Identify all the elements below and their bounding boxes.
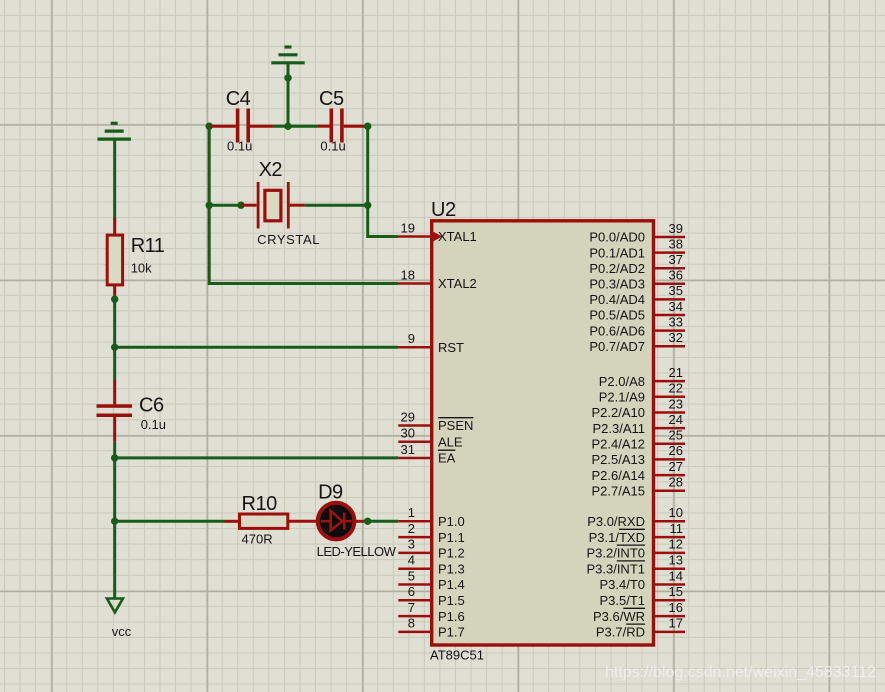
svg-text:24: 24: [669, 412, 683, 427]
svg-text:P3.4/T0: P3.4/T0: [599, 577, 645, 592]
LED D9: [318, 503, 355, 540]
junction below R11: [111, 296, 118, 303]
svg-text:vcc: vcc: [112, 624, 132, 639]
svg-text:37: 37: [669, 252, 683, 267]
wire R11 top lead: [113, 218, 116, 235]
pin 22 (P2.1/A9) right stub: [599, 381, 685, 405]
svg-text:P3.7/RD: P3.7/RD: [596, 625, 645, 640]
svg-text:P3.3/INT1: P3.3/INT1: [586, 561, 645, 576]
svg-text:P0.4/AD4: P0.4/AD4: [589, 292, 645, 307]
svg-text:26: 26: [669, 443, 683, 458]
svg-text:P2.7/A15: P2.7/A15: [592, 483, 646, 498]
pin 15 (P3.5/T1) right stub: [599, 584, 685, 608]
svg-text:5: 5: [408, 568, 415, 583]
junction crystal left lead: [237, 202, 244, 209]
svg-text:P3.0/RXD: P3.0/RXD: [587, 514, 645, 529]
svg-text:LED-YELLOW: LED-YELLOW: [317, 544, 397, 559]
junction left rail / crystal row: [206, 202, 213, 209]
pin 38 (P0.1/AD1) right stub: [589, 236, 685, 260]
svg-text:8: 8: [408, 616, 415, 631]
svg-text:R10: R10: [242, 493, 278, 515]
svg-text:U2: U2: [431, 199, 456, 221]
pin 2 (P1.1) left stub: [398, 521, 464, 545]
pin 18 (XTAL2) left stub: [398, 267, 476, 291]
pin 32 (P0.7/AD7) right stub: [589, 330, 685, 354]
wire X2 right lead: [290, 204, 305, 207]
svg-text:30: 30: [401, 426, 415, 441]
svg-text:10: 10: [669, 505, 683, 520]
junction after D9: [364, 518, 371, 525]
svg-text:29: 29: [401, 409, 415, 424]
wire to RST pin: [115, 346, 399, 349]
svg-text:13: 13: [669, 553, 683, 568]
svg-text:0.1u: 0.1u: [227, 138, 252, 153]
wire cap row centre: [273, 125, 318, 128]
pin 21 (P2.0/A8) right stub: [599, 365, 685, 389]
svg-text:33: 33: [669, 314, 683, 329]
svg-text:12: 12: [669, 537, 683, 552]
svg-text:21: 21: [669, 365, 683, 380]
wire rail to crystal: [209, 204, 241, 207]
svg-text:P0.7/AD7: P0.7/AD7: [589, 339, 645, 354]
junction ground / cap row: [284, 123, 291, 130]
wire X2 left lead: [241, 204, 257, 207]
pin 33 (P0.6/AD6) right stub: [589, 314, 685, 338]
junction on ground stem: [284, 74, 291, 81]
junction right rail / crystal row: [364, 202, 371, 209]
pin 5 (P1.4) left stub: [398, 568, 464, 592]
wire C6 top lead: [113, 380, 116, 404]
svg-text:P2.4/A12: P2.4/A12: [592, 437, 646, 452]
pin 19 (XTAL1) left stub: [398, 220, 476, 244]
svg-text:0.1u: 0.1u: [141, 417, 166, 432]
svg-text:34: 34: [669, 299, 683, 314]
svg-text:15: 15: [669, 584, 683, 599]
svg-text:P0.0/AD0: P0.0/AD0: [589, 230, 645, 245]
pin 29 (PSEN) left stub: [398, 409, 473, 433]
svg-text:P0.1/AD1: P0.1/AD1: [589, 245, 645, 260]
wire C6 to vcc arrow: [113, 442, 116, 599]
svg-text:C6: C6: [139, 394, 164, 416]
svg-text:P0.6/AD6: P0.6/AD6: [589, 323, 645, 338]
svg-text:P0.5/AD5: P0.5/AD5: [589, 308, 645, 323]
svg-text:P1.4: P1.4: [438, 577, 465, 592]
pin 26 (P2.5/A13) right stub: [592, 443, 686, 467]
svg-text:P3.5/T1: P3.5/T1: [599, 593, 645, 608]
svg-text:3: 3: [408, 537, 415, 552]
svg-text:0.1u: 0.1u: [320, 138, 345, 153]
junction RST tap: [111, 344, 118, 351]
pin 7 (P1.6) left stub: [398, 600, 464, 624]
node right end of cap row: [364, 123, 371, 130]
wire R11 bottom lead: [113, 285, 116, 299]
svg-text:27: 27: [669, 459, 683, 474]
wire to EA pin: [115, 456, 399, 459]
svg-text:7: 7: [408, 600, 415, 615]
svg-text:P0.2/AD2: P0.2/AD2: [589, 261, 645, 276]
svg-text:XTAL1: XTAL1: [438, 229, 477, 244]
wire C5 left lead: [318, 125, 330, 128]
svg-text:39: 39: [669, 221, 683, 236]
pin 10 (P3.0/RXD) right stub: [587, 505, 685, 529]
svg-text:AT89C51: AT89C51: [430, 648, 484, 663]
svg-text:32: 32: [669, 330, 683, 345]
pin 16 (P3.6/WR) right stub: [593, 600, 685, 624]
svg-text:D9: D9: [318, 482, 343, 504]
svg-text:P1.7: P1.7: [438, 625, 465, 640]
svg-text:23: 23: [669, 396, 683, 411]
svg-text:P3.6/WR: P3.6/WR: [593, 609, 645, 624]
svg-text:10k: 10k: [131, 260, 152, 275]
wire ground to R11: [113, 139, 116, 220]
wire C4 left lead: [209, 125, 236, 128]
pin 30 (ALE) left stub: [398, 426, 463, 450]
svg-text:18: 18: [401, 267, 415, 282]
svg-text:P1.6: P1.6: [438, 609, 465, 624]
power terminal vcc (arrow): [107, 599, 123, 613]
ground (left, R11 rail): [98, 123, 131, 139]
svg-text:17: 17: [669, 616, 683, 631]
svg-text:9: 9: [408, 331, 415, 346]
svg-text:P1.3: P1.3: [438, 561, 465, 576]
svg-text:19: 19: [401, 220, 415, 235]
wire left rail to XTAL2 pin: [209, 282, 398, 285]
svg-text:https://blog.csdn.net/weixin_4: https://blog.csdn.net/weixin_45833112: [605, 664, 876, 681]
pin 13 (P3.3/INT1) right stub: [586, 553, 685, 577]
wire C6 bottom lead: [113, 417, 116, 442]
svg-text:C5: C5: [319, 88, 344, 110]
pin 17 (P3.7/RD) right stub: [596, 616, 685, 640]
wire rail to R10: [115, 520, 225, 523]
pin 11 (P3.1/TXD) right stub: [589, 521, 685, 545]
ground (top, crystal circuit): [271, 47, 304, 63]
svg-text:PSEN: PSEN: [438, 418, 473, 433]
pin 9 (RST) left stub: [398, 331, 464, 355]
svg-text:P2.2/A10: P2.2/A10: [592, 405, 646, 420]
wire right rail C5 to XTAL1: [366, 126, 369, 238]
junction P1.0 tap: [111, 518, 118, 525]
pin 6 (P1.5) left stub: [398, 584, 464, 608]
wire R11 to C6: [113, 299, 116, 380]
svg-text:P0.3/AD3: P0.3/AD3: [589, 277, 645, 292]
resistor R11: [107, 235, 122, 285]
pin 31 (EA) left stub: [398, 442, 455, 466]
svg-text:11: 11: [670, 521, 684, 536]
svg-text:4: 4: [408, 553, 415, 568]
svg-text:RST: RST: [438, 340, 464, 355]
wire left rail C4 to XTAL2: [208, 126, 211, 285]
svg-text:P2.5/A13: P2.5/A13: [592, 452, 646, 467]
svg-text:R11: R11: [131, 235, 165, 257]
pin 12 (P3.2/INT0) right stub: [586, 537, 685, 561]
svg-text:22: 22: [669, 381, 683, 396]
pin 8 (P1.7) left stub: [398, 616, 464, 640]
pin 39 (P0.0/AD0) right stub: [589, 221, 685, 245]
wire R10 to D9: [288, 520, 316, 523]
svg-text:XTAL2: XTAL2: [438, 276, 477, 291]
svg-text:16: 16: [669, 600, 683, 615]
resistor R10: [240, 514, 288, 528]
svg-text:31: 31: [401, 442, 415, 457]
capacitor C5: [330, 109, 344, 143]
wire C4 right lead: [250, 125, 273, 128]
pin 28 (P2.7/A15) right stub: [592, 475, 686, 499]
pin 1 (P1.0) left stub: [398, 505, 464, 529]
node left end of cap row: [206, 123, 213, 130]
svg-text:470R: 470R: [242, 531, 273, 546]
pin 25 (P2.4/A12) right stub: [592, 428, 686, 452]
pin 23 (P2.2/A10) right stub: [592, 396, 686, 420]
svg-text:P1.2: P1.2: [438, 546, 465, 561]
wire D9 right lead: [353, 520, 364, 523]
crystal X2: [257, 182, 290, 229]
svg-text:25: 25: [669, 428, 683, 443]
wire R10 left lead: [225, 520, 240, 523]
svg-text:C4: C4: [226, 88, 251, 110]
pin 36 (P0.3/AD3) right stub: [589, 268, 685, 292]
svg-text:2: 2: [408, 521, 415, 536]
pin 34 (P0.5/AD5) right stub: [589, 299, 685, 323]
svg-text:38: 38: [669, 236, 683, 251]
svg-text:P1.0: P1.0: [438, 514, 465, 529]
pin 4 (P1.3) left stub: [398, 553, 464, 577]
svg-text:6: 6: [408, 584, 415, 599]
pin 14 (P3.4/T0) right stub: [599, 568, 685, 592]
svg-text:EA: EA: [438, 451, 456, 466]
svg-text:35: 35: [669, 283, 683, 298]
svg-text:P2.6/A14: P2.6/A14: [592, 468, 646, 483]
wire right rail to XTAL1 pin: [368, 235, 399, 238]
svg-text:X2: X2: [259, 159, 283, 181]
pin 27 (P2.6/A14) right stub: [592, 459, 686, 483]
wire C5 right lead: [344, 125, 368, 128]
svg-text:P1.5: P1.5: [438, 593, 465, 608]
svg-text:28: 28: [669, 475, 683, 490]
svg-text:CRYSTAL: CRYSTAL: [257, 232, 320, 247]
svg-text:P2.3/A11: P2.3/A11: [592, 421, 645, 436]
svg-text:36: 36: [669, 268, 683, 283]
svg-text:ALE: ALE: [438, 435, 463, 450]
svg-text:P2.0/A8: P2.0/A8: [599, 374, 645, 389]
pin 37 (P0.2/AD2) right stub: [589, 252, 685, 276]
pin 35 (P0.4/AD4) right stub: [589, 283, 685, 307]
pin 24 (P2.3/A11) right stub: [592, 412, 685, 436]
svg-text:P3.2/INT0: P3.2/INT0: [586, 546, 645, 561]
svg-text:1: 1: [408, 505, 415, 520]
capacitor C4: [236, 109, 250, 143]
wire ground stem to C4/C5 row: [287, 63, 290, 126]
junction EA tap: [111, 454, 118, 461]
capacitor C6: [97, 404, 133, 417]
svg-text:P2.1/A9: P2.1/A9: [599, 390, 645, 405]
svg-text:14: 14: [669, 568, 683, 583]
svg-text:P3.1/TXD: P3.1/TXD: [589, 530, 645, 545]
IC U2 AT89C51 body: [432, 221, 654, 645]
pin 3 (P1.2) left stub: [398, 537, 464, 561]
wire crystal to right rail: [305, 204, 368, 207]
svg-text:P1.1: P1.1: [438, 530, 465, 545]
wire D9 to P1.0 pin: [364, 520, 398, 523]
